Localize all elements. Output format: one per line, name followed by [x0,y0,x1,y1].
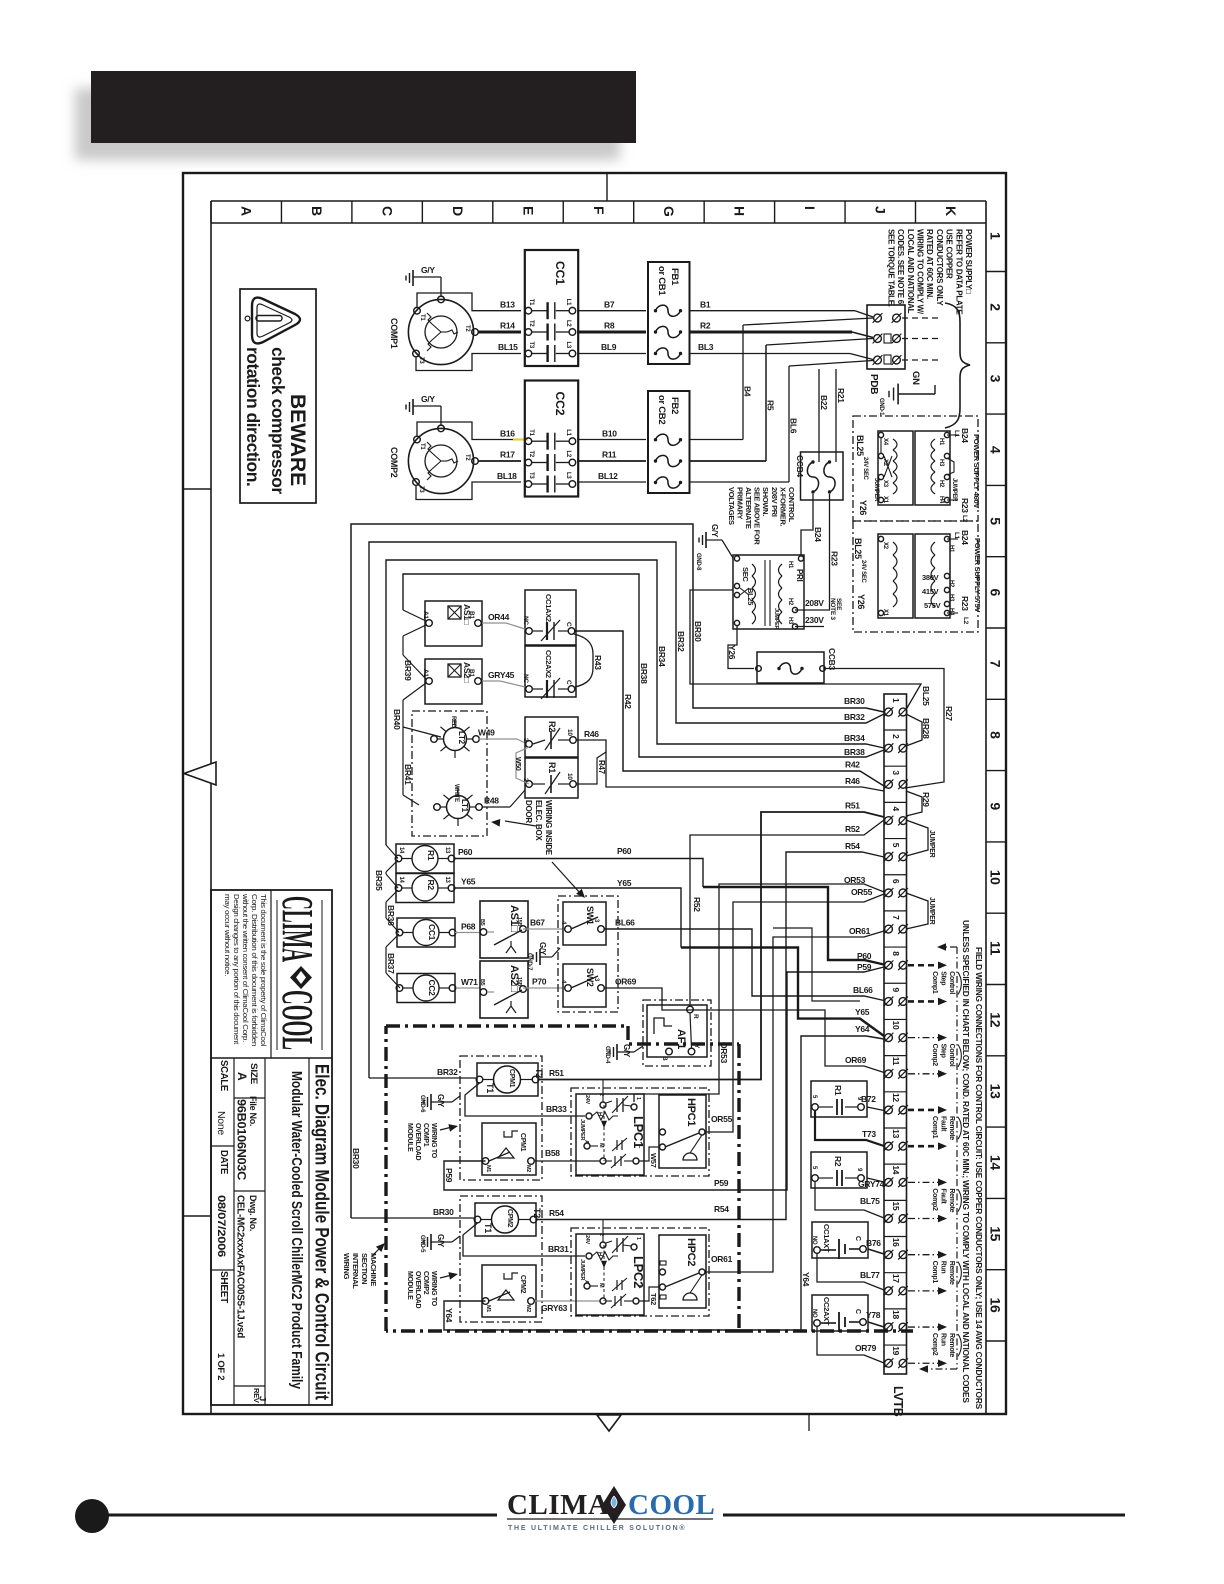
svg-text:Corp. Distribution of this do: Corp. Distribution of this document is f… [250,894,257,1046]
wire B16 yellow segment [513,438,528,440]
svg-text:G/Y: G/Y [421,265,435,275]
wire label R2 [700,321,711,331]
svg-text:WIRING TO COMPLY W/: WIRING TO COMPLY W/ [916,229,925,315]
ground G/Y GND-7 [526,942,560,971]
svg-text:L2: L2 [565,451,571,458]
svg-text:B24: B24 [813,527,823,542]
svg-text:7: 7 [891,915,901,920]
low pressure control LPC1 and high pressure control HPC1 module [571,1080,709,1177]
wire P59 [444,962,884,1190]
svg-text:B67: B67 [530,918,545,928]
wire COMP2 T3 to CC2 jog [416,482,521,500]
svg-text:BL25: BL25 [855,435,865,456]
svg-text:R46: R46 [845,776,860,786]
svg-text:H2: H2 [948,580,954,588]
svg-text:CODES. SEE NOTE 6.: CODES. SEE NOTE 6. [896,229,905,306]
svg-text:BR33: BR33 [546,1104,567,1114]
svg-text:14: 14 [398,847,404,854]
wire BR34 chain [386,845,398,874]
drawing title text [311,1064,333,1400]
svg-text:R51: R51 [845,801,860,811]
fuse block FB1 or CB1 [648,262,690,364]
wire W71 [456,977,480,988]
svg-text:CPM1: CPM1 [519,1133,526,1152]
wire label B16 [500,428,515,438]
svg-text:10: 10 [566,729,573,736]
svg-text:CLIMA: CLIMA [273,896,322,962]
svg-text:or CB1: or CB1 [656,266,667,296]
bottom tick [808,1414,810,1431]
svg-text:Fault: Fault [940,1116,947,1132]
svg-text:B58: B58 [545,1148,560,1158]
svg-text:NO: NO [811,1309,817,1318]
wire P60 [454,846,884,965]
svg-text:BR36: BR36 [386,905,396,926]
wire OR53 [634,875,884,1102]
svg-text:380V: 380V [922,573,939,582]
overload module CPM2 bottom [482,1265,536,1317]
compressor protection module CPM1 top [476,1063,544,1096]
elec box door dash-dot box [412,711,487,836]
wire BR32 bus [369,542,884,1078]
ground G/Y ctrl tx [695,524,733,571]
left fold tick upper [183,488,211,490]
svg-text:B4: B4 [743,386,753,397]
svg-text:8: 8 [891,951,901,956]
svg-text:CC1AXT: CC1AXT [822,1224,831,1253]
svg-text:9: 9 [988,802,1004,810]
svg-text:LT1: LT1 [460,799,469,813]
svg-text:or CB2: or CB2 [656,395,667,424]
svg-text:G/Y: G/Y [538,942,547,956]
compressor protection module CPM2 top [474,1203,542,1236]
svg-text:GND-5: GND-5 [419,1235,425,1253]
svg-text:H3: H3 [938,459,944,467]
field wiring boundary dash-dot [919,943,957,1373]
svg-text:GRY74: GRY74 [858,1179,885,1189]
ground GN with GND-1 [878,371,935,416]
SEE NOTE 3 label [829,598,842,620]
svg-text:C: C [565,622,572,627]
svg-text:OR69: OR69 [615,977,637,987]
svg-text:CC1AX2: CC1AX2 [544,594,553,622]
machine section boundary [386,1026,913,1331]
field power brace [945,303,970,428]
wire BR38 chain fan AS1 [403,610,426,655]
svg-text:NOTE 3: NOTE 3 [829,598,836,620]
svg-text:I: I [802,206,818,210]
svg-text:13: 13 [444,847,450,854]
wire P68 [455,922,480,933]
svg-text:LT2: LT2 [457,731,466,745]
svg-text:17: 17 [891,1274,901,1283]
svg-text:JUMPER: JUMPER [928,897,935,925]
svg-text:COMP2: COMP2 [422,1271,429,1295]
svg-text:G/Y: G/Y [622,1044,631,1058]
svg-text:M1: M1 [485,1165,491,1172]
svg-text:JUMPER: JUMPER [873,478,879,502]
header black title bar [91,71,636,143]
svg-text:Y65: Y65 [461,877,476,887]
svg-text:LPC1: LPC1 [631,1116,646,1148]
svg-text:T3: T3 [528,472,534,479]
wire label B10 [602,428,617,438]
svg-text:CLIMA: CLIMA [507,1489,609,1521]
svg-text:X1: X1 [882,496,888,504]
wire OR44 [482,612,525,629]
fuse box CCB4 [795,452,843,500]
svg-text:14: 14 [988,1155,1004,1170]
wire label BL18 [497,471,517,481]
svg-text:OR53: OR53 [719,1042,729,1064]
svg-text:G/Y: G/Y [710,524,719,538]
svg-text:NC: NC [522,616,529,625]
contact CC2AX2 box [522,646,576,699]
svg-text:B1: B1 [468,611,475,619]
svg-text:B5: B5 [479,919,485,926]
svg-text:X4: X4 [882,438,888,446]
wire R48 [482,790,525,807]
wire BR31 [463,1223,585,1256]
svg-text:3: 3 [891,770,901,775]
svg-text:Y26: Y26 [856,594,866,609]
svg-text:T1: T1 [485,1083,495,1093]
svg-text:96B0106N03C: 96B0106N03C [235,1099,249,1181]
svg-text:BL3: BL3 [698,342,714,352]
svg-text:COOL: COOL [273,990,322,1050]
svg-text:B1: B1 [700,300,711,310]
svg-text:Remote: Remote [948,1261,955,1285]
wire BR30 to CPM2 [351,1148,474,1218]
svg-text:Control: Control [948,971,955,994]
svg-text:R1: R1 [547,762,557,773]
svg-text:C: C [379,206,395,216]
svg-text:Step: Step [940,971,947,985]
grid letters band [211,201,986,223]
wire BL66 [604,918,884,1001]
svg-text:B1: B1 [468,669,475,677]
LVTB label [891,1386,905,1417]
svg-text:OR53: OR53 [844,875,866,885]
power supply note [886,229,973,315]
svg-text:check compressor: check compressor [268,347,288,494]
svg-text:R1: R1 [833,1085,843,1096]
svg-text:BR38: BR38 [844,747,865,757]
svg-text:G/Y: G/Y [436,1094,445,1108]
header bar shadow [75,88,620,160]
svg-text:L1: L1 [565,299,571,306]
svg-text:1: 1 [891,698,901,703]
wire R14 row [478,331,521,334]
svg-text:08/07/2006: 08/07/2006 [215,1195,227,1257]
svg-text:BL15: BL15 [498,342,518,352]
svg-text:OR55: OR55 [851,887,873,897]
wiring to comp1 overload label [406,1123,437,1161]
svg-text:ELEC. BOX: ELEC. BOX [534,800,543,841]
svg-text:FIELD WIRING CONNECTIONS FOR C: FIELD WIRING CONNECTIONS FOR CONTROL CIR… [974,947,984,1410]
wires CC2 to FB2 [577,440,646,483]
svg-text:WIRING: WIRING [342,1253,351,1280]
svg-text:B24: B24 [960,428,970,443]
svg-text:L1: L1 [953,430,960,438]
svg-text:X2: X2 [882,459,888,467]
svg-text:B16: B16 [500,428,515,438]
svg-text:R23: R23 [830,551,840,566]
svg-text:13: 13 [988,1084,1004,1099]
svg-text:BR30: BR30 [351,1148,361,1169]
svg-text:BR30: BR30 [693,621,703,642]
svg-text:B7: B7 [604,300,615,310]
svg-text:14: 14 [891,1165,901,1174]
svg-text:15B: 15B [516,917,522,927]
svg-text:L1: L1 [565,429,571,436]
svg-text:H: H [596,1252,602,1256]
svg-text:R51: R51 [549,1068,564,1078]
svg-text:SIZE: SIZE [249,1063,259,1084]
svg-text:M: M [598,1143,604,1148]
coil CC1 box [396,918,456,947]
svg-text:10: 10 [566,773,573,780]
svg-text:T3: T3 [418,486,424,493]
svg-text:T2: T2 [464,325,470,332]
svg-text:Y26: Y26 [858,500,868,515]
BEWARE text [286,394,309,486]
left fold tick lower [183,1215,211,1217]
svg-text:DATE: DATE [218,1150,229,1175]
svg-text:H1: H1 [787,561,793,569]
svg-text:BL75: BL75 [860,1196,880,1206]
svg-text:Remote: Remote [948,1188,955,1212]
svg-text:BR30: BR30 [433,1207,454,1217]
wire label R17 [500,450,515,460]
low pressure control LPC2 and high pressure control HPC2 module [571,1220,709,1317]
svg-text:MACHINE: MACHINE [369,1253,378,1286]
svg-text:H3: H3 [948,594,954,602]
ClimaCool vertical logo [273,896,322,1050]
switch SW1 [560,902,606,945]
svg-text:WHITE: WHITE [453,784,459,802]
svg-text:MODULE: MODULE [406,1271,413,1300]
svg-text:BL77: BL77 [860,1270,880,1280]
svg-text:F: F [591,206,607,215]
HPC2 tiny squares [660,1261,666,1299]
svg-text:OVERLOAD: OVERLOAD [414,1123,421,1161]
aux contact CC1AXT box [811,1222,884,1290]
svg-text:T3: T3 [418,357,424,364]
svg-text:H4: H4 [938,496,944,504]
svg-text:E: E [520,206,536,215]
jumper R29 [906,791,931,816]
svg-text:Comp2: Comp2 [931,1188,938,1211]
svg-text:CC1: CC1 [427,924,437,941]
relay R2 box [395,874,455,903]
PDB label [868,374,879,394]
svg-text:R23: R23 [960,498,970,513]
svg-text:H3: H3 [787,617,793,625]
svg-text:BR38: BR38 [639,663,649,684]
wires FB1 to PDB [690,311,873,360]
COMP2 label [389,447,399,478]
check compressor text [268,347,288,494]
575V labels [853,530,982,625]
svg-text:R48: R48 [484,796,499,806]
ground G/Y GND-4 [604,1044,643,1064]
svg-text:18: 18 [891,1310,901,1319]
door callout arrow 1 [491,819,536,827]
svg-text:None: None [215,1111,227,1135]
svg-text:13: 13 [444,877,450,884]
wire BR34 bus [386,560,884,845]
warning triangle icon [245,298,300,344]
labels 208V 230V [805,598,824,625]
svg-text:T1: T1 [419,314,425,321]
svg-text:Design changes to any portion: Design changes to any portion of this do… [232,894,239,1044]
field wiring Remote Fault Comp1 [908,1106,961,1150]
svg-text:24V SEC: 24V SEC [862,457,868,481]
aux switch AS1 box [422,601,482,646]
svg-text:OR55: OR55 [711,1114,733,1124]
wire BR35 [374,870,398,918]
svg-text:JUMPER: JUMPER [951,478,957,502]
footer ClimaCool logo [507,1486,715,1532]
title block SIZE [235,1063,259,1084]
CPM1 module dash-dot box [460,1056,542,1180]
svg-text:Remote: Remote [948,1333,955,1357]
wire BL66 jog [773,928,860,1001]
svg-text:BL25: BL25 [921,686,931,706]
svg-text:BR32: BR32 [676,631,686,652]
footer left rule [108,1514,497,1517]
svg-text:CC1: CC1 [553,261,567,285]
title block outline [211,890,332,1405]
svg-text:H2: H2 [787,598,793,606]
wire R51 [539,801,884,1080]
wire BR41 [403,764,419,805]
svg-text:T2: T2 [532,1208,542,1218]
svg-text:T2: T2 [464,454,470,461]
svg-text:LOCAL AND NATIONAL: LOCAL AND NATIONAL [906,229,915,314]
svg-text:10: 10 [891,1021,901,1030]
svg-text:VOLTAGES: VOLTAGES [727,487,736,525]
svg-text:CEL-MC2xxxAxFAC00S5-1J.vsd: CEL-MC2xxxAxFAC00S5-1J.vsd [235,1195,247,1338]
svg-text:Y: Y [693,1044,700,1049]
aux switch AS1 lower [479,901,528,958]
svg-text:L3: L3 [565,342,571,349]
svg-text:B72: B72 [861,1094,876,1104]
svg-text:14: 14 [398,877,404,884]
wire B67 [523,918,563,930]
svg-text:230V: 230V [805,615,824,625]
field wiring Remote Run Comp2 [908,1323,961,1367]
title block SHEET [215,1271,229,1380]
svg-text:P59: P59 [714,1178,729,1188]
svg-text:OR69: OR69 [845,1055,867,1065]
wiring inside elec box door label [524,800,553,856]
svg-text:G/Y: G/Y [421,394,435,404]
wire OR55 [705,887,884,1132]
svg-text:R47: R47 [597,760,606,775]
svg-text:2: 2 [598,1093,604,1096]
svg-text:COMP1: COMP1 [422,1123,429,1147]
svg-text:R8: R8 [604,321,615,331]
svg-text:R17: R17 [500,450,515,460]
svg-text:CONDUCTORS ONLY: CONDUCTORS ONLY [935,229,944,306]
svg-text:SEE TORQUE TABLE.: SEE TORQUE TABLE. [886,229,895,307]
footer right rule [723,1514,1125,1517]
svg-text:USE COPPER: USE COPPER [945,229,954,279]
svg-text:X2: X2 [882,542,888,550]
svg-text:C: C [854,1236,861,1241]
machine section internal wiring label [342,1253,378,1289]
svg-text:15: 15 [891,1202,901,1211]
svg-text:1 OF 2: 1 OF 2 [215,1353,226,1380]
svg-text:BEWARE: BEWARE [286,394,309,486]
svg-text:H: H [596,1112,602,1116]
field wiring note line2 [961,920,971,1403]
wire label B13 [500,300,515,310]
svg-text:Step: Step [940,1044,947,1058]
switch SW2 [560,964,606,1007]
svg-text:Dwg. No.: Dwg. No. [248,1195,258,1231]
title block dividers [211,890,332,1405]
svg-text:R2: R2 [833,1156,843,1167]
relay contact R2 box [522,717,578,757]
svg-text:15: 15 [988,1226,1004,1241]
svg-text:SW1: SW1 [585,906,595,925]
svg-text:Fault: Fault [940,1188,947,1204]
svg-text:BR31: BR31 [548,1244,569,1254]
svg-text:SECTION: SECTION [360,1253,369,1284]
wire label R8 [604,321,615,331]
svg-text:T1: T1 [483,1223,493,1233]
svg-text:File No.: File No. [248,1096,258,1126]
svg-text:Y64: Y64 [444,1308,454,1323]
svg-text:6: 6 [988,589,1004,597]
wire label R14 [500,321,515,331]
svg-text:R: R [692,1014,699,1019]
svg-text:JUMPER: JUMPER [928,830,935,858]
svg-text:R52: R52 [692,897,702,912]
wire R47 [576,752,606,784]
indicator light LT1 [434,784,483,826]
svg-text:W50: W50 [514,757,521,771]
svg-text:16: 16 [988,1298,1004,1313]
wire Y26 ctrl [727,626,754,669]
svg-text:H1: H1 [948,545,954,553]
svg-text:LVTB: LVTB [891,1386,905,1417]
svg-text:5: 5 [988,517,1004,525]
svg-text:W57: W57 [649,1153,658,1168]
control transformer box [733,555,824,629]
svg-text:T2: T2 [528,451,534,458]
svg-text:RATED AT 60C MIN.: RATED AT 60C MIN. [925,229,934,299]
wire BR40 [392,709,441,795]
svg-text:H4: H4 [948,608,954,616]
svg-text:T1: T1 [528,429,534,436]
wiring to comp2 overload label [406,1271,437,1309]
svg-text:UNLESS SPECIFIED IN CHART BELO: UNLESS SPECIFIED IN CHART BELOW; COND. R… [961,920,971,1403]
svg-text:BR32: BR32 [844,712,865,722]
svg-text:10: 10 [988,870,1004,885]
svg-text:1: 1 [988,232,1004,240]
svg-text:GND-8: GND-8 [695,553,701,571]
ground G/Y GND-5 [419,1234,460,1253]
field wiring Control Step Comp2 [908,1034,961,1078]
wire B58 [535,1148,600,1161]
relay contact R1 box [522,758,578,798]
wire label B1 [700,300,711,310]
compressor motor COMP1 [408,296,478,364]
